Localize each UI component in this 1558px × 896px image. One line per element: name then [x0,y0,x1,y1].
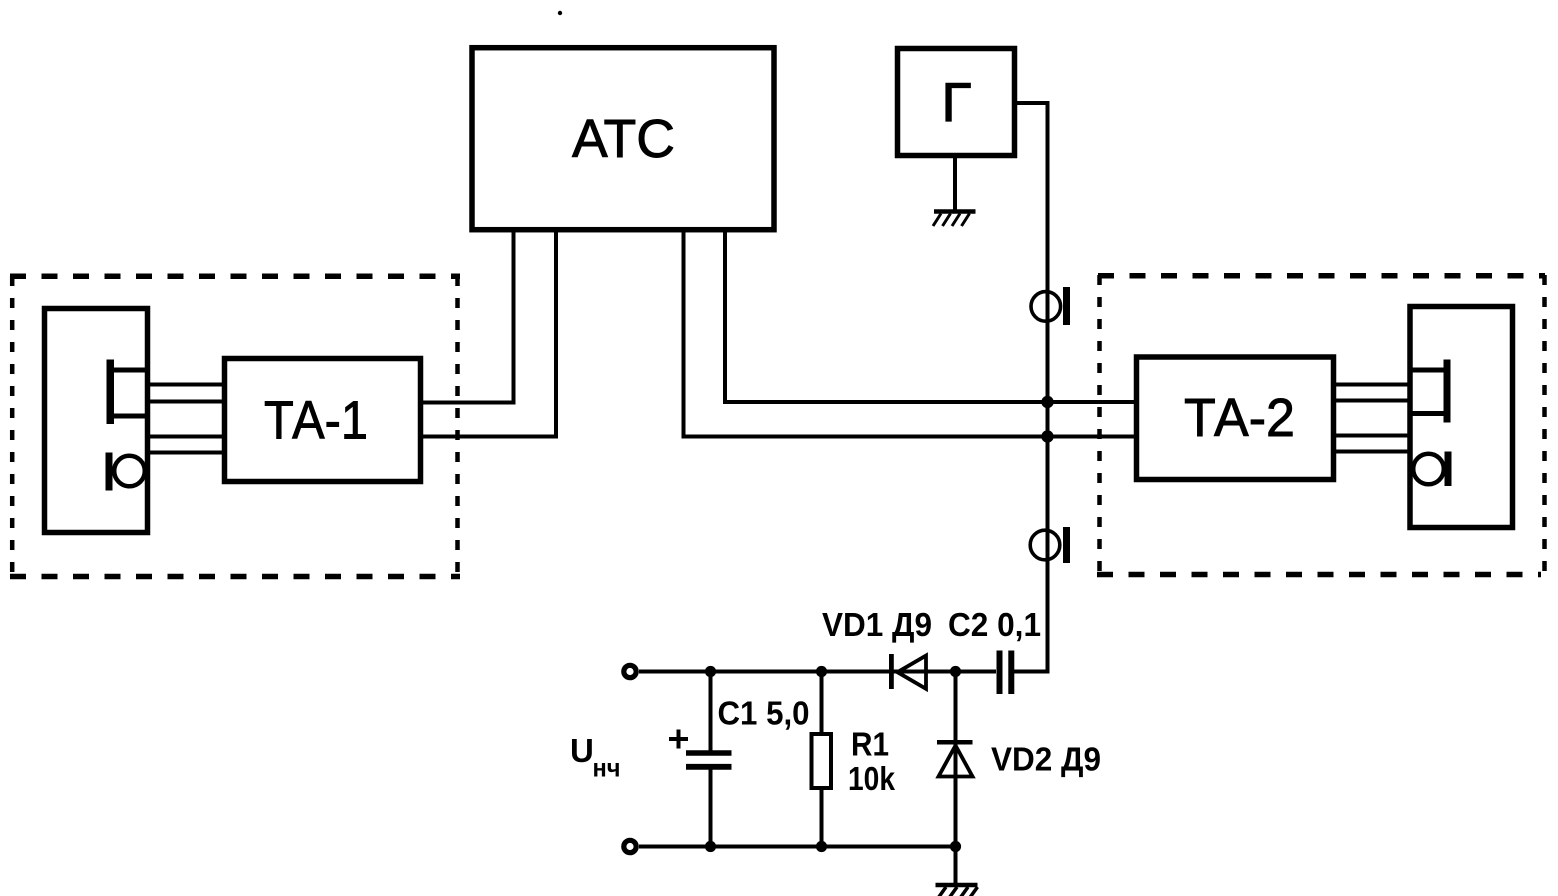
svg-text:C2 0,1: C2 0,1 [948,607,1041,644]
svg-text:VD2 Д9: VD2 Д9 [991,742,1101,779]
svg-text:Г: Г [942,71,972,133]
svg-text:ТА-1: ТА-1 [264,391,368,451]
svg-text:R1: R1 [851,727,889,764]
svg-text:C1 5,0: C1 5,0 [718,696,810,733]
svg-text:10k: 10k [848,761,895,798]
svg-text:нч: нч [593,753,621,783]
svg-text:ТА-2: ТА-2 [1184,388,1295,448]
svg-text:U: U [570,732,594,769]
svg-text:VD1 Д9: VD1 Д9 [822,607,932,644]
svg-text:АТС: АТС [572,109,675,169]
